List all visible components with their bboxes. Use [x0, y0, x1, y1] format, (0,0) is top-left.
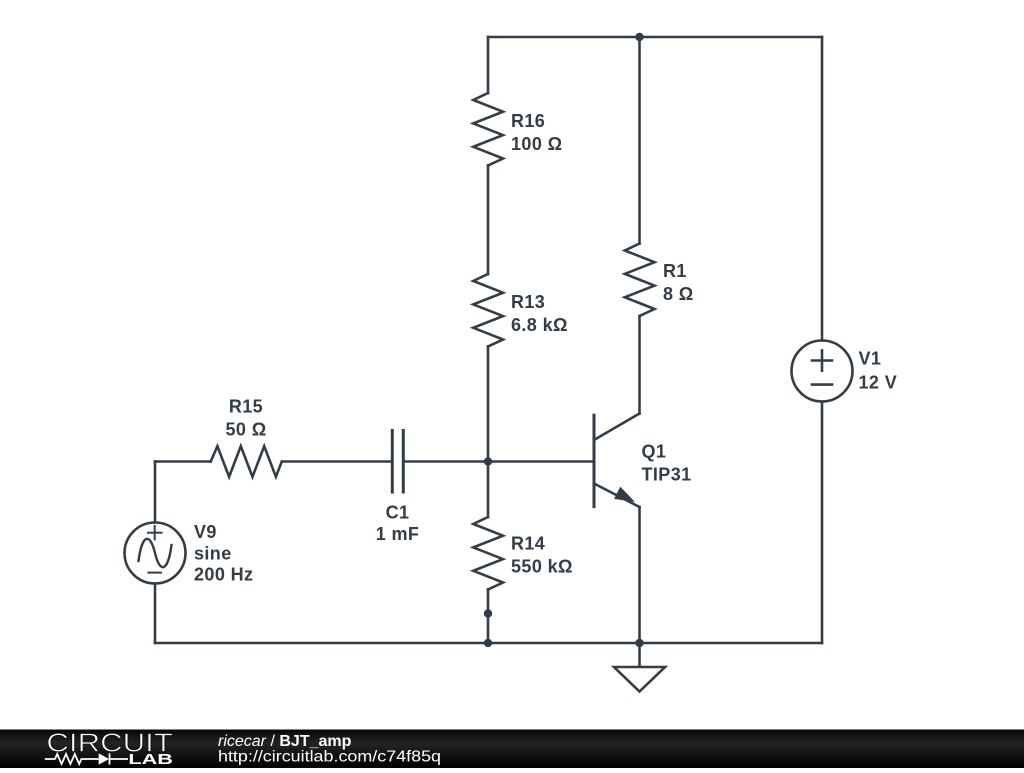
- svg-text:V1: V1: [859, 349, 882, 369]
- svg-text:50 Ω: 50 Ω: [225, 419, 266, 439]
- svg-text:200 Hz: 200 Hz: [194, 565, 253, 585]
- svg-text:12 V: 12 V: [859, 373, 898, 393]
- svg-text:Q1: Q1: [642, 442, 667, 462]
- svg-text:550 kΩ: 550 kΩ: [511, 557, 573, 577]
- svg-text:8 Ω: 8 Ω: [663, 284, 694, 304]
- svg-text:sine: sine: [194, 543, 232, 563]
- svg-text:C1: C1: [386, 503, 410, 523]
- svg-text:LAB: LAB: [128, 752, 173, 768]
- svg-text:1 mF: 1 mF: [376, 524, 420, 544]
- svg-text:TIP31: TIP31: [642, 465, 692, 485]
- svg-text:http://circuitlab.com/c74f85q: http://circuitlab.com/c74f85q: [218, 748, 441, 765]
- svg-text:R16: R16: [511, 111, 545, 131]
- svg-text:R1: R1: [663, 261, 687, 281]
- svg-text:R15: R15: [229, 396, 263, 416]
- svg-text:R14: R14: [511, 534, 545, 554]
- svg-text:V9: V9: [194, 522, 217, 542]
- svg-text:100 Ω: 100 Ω: [511, 134, 562, 154]
- svg-text:R13: R13: [511, 292, 545, 312]
- svg-text:6.8 kΩ: 6.8 kΩ: [511, 315, 568, 335]
